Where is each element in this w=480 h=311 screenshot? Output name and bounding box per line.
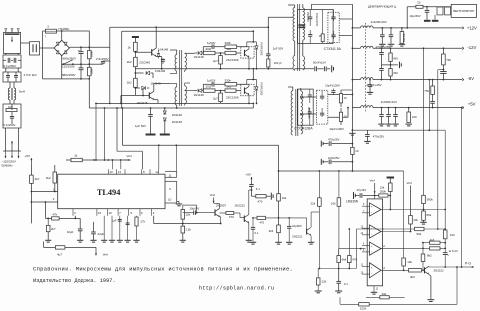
wire fuse to +rail [57, 30, 90, 32]
resistor 102k bottom [359, 303, 370, 306]
connector fan pin a [437, 7, 443, 15]
Q7 emitter ground [429, 275, 431, 276]
resistor 6k8 [338, 249, 340, 256]
capacitor bottom in box [308, 34, 312, 36]
svg-text:0.1: 0.1 [344, 282, 348, 286]
capacitor X2 0.1x250V box [30, 42, 40, 55]
resistor R 4k7 upper-left [30, 175, 34, 183]
resistor 2k7 left [47, 218, 49, 225]
wire riser x403 to PG comparator [403, 171, 405, 252]
comparator U2b [370, 225, 382, 238]
capacitor under pin5 [126, 222, 130, 224]
wire -5V feed [341, 89, 352, 91]
vertical x320 from y171 [318, 171, 320, 198]
resistor R 2k2 at pin1 [54, 165, 56, 172]
svg-text:+5V: +5V [468, 102, 476, 107]
transistor Q7 2N2222 PG [424, 267, 426, 273]
resistor 470 ladder [348, 229, 350, 256]
svg-text:15: 15 [98, 211, 102, 215]
resistor 10 upper [339, 94, 342, 103]
capacitor 10u60V protection [288, 218, 290, 227]
svg-text:56k: 56k [417, 232, 422, 236]
wire 12k top [182, 205, 184, 209]
arrow +5V sense [251, 177, 253, 183]
svg-text:2k2: 2k2 [127, 60, 132, 64]
Q6 emitter ground [248, 223, 250, 240]
transformer T1 primary winding [293, 8, 295, 41]
svg-text:100: 100 [412, 115, 417, 119]
svg-text:0.1x250V: 0.1x250V [4, 64, 17, 68]
svg-text:100 pf: 100 pf [274, 61, 282, 65]
svg-text:4μ7: 4μ7 [57, 252, 62, 256]
svg-text:10nFx100V: 10nFx100V [315, 13, 319, 27]
capacitor C +12 a [381, 28, 383, 35]
svg-text:1N4148: 1N4148 [194, 93, 205, 97]
svg-text:TL494: TL494 [97, 188, 121, 197]
wire pin4 run [153, 216, 155, 224]
svg-text:Vref: Vref [370, 178, 375, 182]
resistor 10k pg [403, 252, 405, 258]
svg-text:330k: 330k [225, 78, 232, 82]
svg-text:100x25V: 100x25V [328, 156, 339, 160]
wire row1 collector bus [252, 31, 254, 42]
wire inlet to X-cap [21, 42, 30, 44]
svg-text:3k3: 3k3 [269, 229, 274, 233]
wire secondary common bus [351, 4, 353, 130]
filter box F2 0.1x250V [3, 55, 21, 68]
capacitor -5 rail [369, 80, 371, 85]
svg-text:Vref: Vref [103, 253, 108, 257]
svg-text:PXPR1005: PXPR1005 [259, 43, 263, 56]
svg-text:PXPR1005: PXPR1005 [259, 83, 263, 96]
resistor 330k row2 [225, 83, 237, 86]
svg-text:1N4148: 1N4148 [194, 55, 205, 59]
resistor R3 1k [134, 38, 136, 43]
connector fan pin b [445, 7, 451, 15]
transistor 2SC1306 row2 [241, 84, 254, 95]
wire bridge right to cap bank [69, 46, 109, 48]
svg-text:4.7nF 2kV: 4.7nF 2kV [24, 73, 37, 77]
wire riser row1 to row2 bus [252, 69, 254, 80]
svg-text:100k: 100k [90, 68, 94, 74]
svg-text:2N2222: 2N2222 [292, 234, 303, 238]
wire pin2 riser [44, 202, 46, 218]
transformer T2 right windings [185, 53, 187, 70]
capacitor below 750 second [432, 94, 434, 101]
capacitor 470x25V on ground bus [366, 130, 368, 134]
svg-text:2k2: 2k2 [46, 176, 51, 180]
wire bridge left to X-cap [43, 47, 55, 49]
svg-text:P·G: P·G [465, 262, 471, 266]
svg-text:22μF: 22μF [98, 232, 105, 236]
svg-text:1μ62V: 1μ62V [207, 78, 215, 82]
resistor 750 from -5 [431, 86, 435, 94]
Q8 emitter ground [310, 236, 312, 242]
resistor 56k [415, 227, 425, 230]
Q8 collector up [310, 212, 312, 227]
svg-text:10μF: 10μF [67, 230, 74, 234]
svg-text:27k: 27k [141, 219, 146, 223]
svg-text:16: 16 [109, 211, 113, 215]
capacitor 0.1 [338, 269, 340, 282]
svg-text:5mH: 5mH [19, 90, 25, 94]
resistor 2u7 row2 [220, 91, 222, 94]
resistor 15 in box [321, 34, 324, 42]
ground fan connector [434, 15, 436, 20]
svg-text:1μF 50V: 1μF 50V [273, 47, 284, 51]
wires from feedback to pins 13 14 [112, 160, 114, 169]
capacitor in box upper [308, 94, 312, 96]
svg-text:50/60Hz: 50/60Hz [2, 164, 14, 168]
wire riser x121.7 [121, 31, 123, 108]
resistor 4k6 upper [430, 241, 441, 244]
resistor 2u7 row1 [220, 53, 222, 56]
wire pin10 to ground [177, 201, 179, 203]
wire to pin1 junction [30, 183, 32, 223]
diode VD8 1N4148 vertical pair upper [164, 108, 166, 111]
svg-text:1k: 1k [128, 45, 132, 49]
wire emitter row2 [248, 95, 250, 104]
connector X1 AC inlet box [4, 33, 21, 54]
resistor 100 on +5 [407, 112, 411, 122]
svg-text:2x2200x16V: 2x2200x16V [371, 20, 387, 24]
wire U2c output [381, 247, 423, 249]
svg-text:ВЕНТИЛЯТОР: ВЕНТИЛЯТОР [453, 9, 474, 13]
svg-text:20Ω: 20Ω [206, 84, 212, 88]
fan box ventilyator [451, 4, 476, 17]
wire U2b output [381, 231, 411, 233]
svg-text:470x25V: 470x25V [328, 137, 339, 141]
comparator U2d [370, 263, 382, 278]
U1 left pins 1 2 [31, 191, 57, 193]
svg-text:10: 10 [344, 114, 347, 118]
transformer T1 lower winding [293, 56, 295, 71]
svg-text:Справочник. Микросхемы для имп: Справочник. Микросхемы для импульсных ис… [33, 266, 293, 273]
resistor vertical with bar [387, 177, 395, 179]
svg-text:4k7: 4k7 [35, 177, 40, 181]
output arrows 115/230V [5, 151, 7, 158]
svg-text:14: 14 [118, 170, 122, 174]
wire 56k row [356, 228, 445, 230]
wire emitter Q1 down [156, 56, 162, 58]
ground heavy under C7 [146, 134, 156, 136]
bus from U1 to right [122, 144, 278, 146]
resistor 20 Ohm row1 [203, 51, 215, 54]
svg-text:10: 10 [344, 96, 347, 100]
wire return bus y108 [89, 107, 253, 109]
svg-text:Vref: Vref [127, 154, 132, 158]
svg-text:CTX9412BA: CTX9412BA [294, 127, 313, 131]
resistor 750 from -12 [442, 54, 446, 65]
ground right of 470 [266, 195, 270, 197]
svg-text:1N4148: 1N4148 [172, 120, 183, 124]
rectifier VD12 dual diode dashed box lower [317, 90, 328, 124]
svg-text:0.1x250V: 0.1x250V [3, 123, 15, 127]
wire X-cap to fuse riser [40, 47, 43, 49]
resistor R5 2k2 lower [134, 78, 138, 87]
rail +12V [352, 27, 360, 29]
svg-text:10μ60V: 10μ60V [292, 224, 302, 228]
svg-text:330k: 330k [225, 41, 232, 45]
connector X1 pins [5, 31, 7, 33]
svg-text:8k2: 8k2 [427, 254, 432, 258]
resistor 2k2 row2 [225, 89, 236, 92]
op-amp U1 TL494 box [58, 174, 165, 209]
svg-text:10k: 10k [413, 218, 418, 222]
capacitor 22uF [93, 222, 95, 228]
bottom terminal bar [3, 150, 21, 152]
resistor 1k lower [430, 247, 441, 250]
svg-text:470: 470 [259, 221, 264, 225]
rectifier VD11 dual diode dashed box [328, 12, 339, 42]
wire collector row2 [248, 84, 250, 86]
capacitor heavy coupling [299, 24, 306, 26]
wires pins 12 11 up [158, 145, 160, 169]
symbol chassis arrow [11, 141, 13, 149]
wire snubber top to transformer [268, 16, 293, 18]
resistor R 4u7 horizontal bottom [55, 246, 65, 249]
svg-text:ДЕМПФИРУЮЩАЯ Ц.: ДЕМПФИРУЮЩАЯ Ц. [368, 4, 397, 8]
svg-text:3x3300x10V: 3x3300x10V [381, 100, 397, 104]
resistor 10 lower [339, 112, 342, 121]
resistor 27k under pin6 [135, 217, 138, 226]
wire collector row1 [248, 47, 250, 49]
vertical +5 to PG [461, 108, 463, 267]
svg-text:3k3: 3k3 [410, 275, 415, 279]
Q6 collector to +5V node [248, 190, 250, 215]
svg-text:+5V: +5V [25, 154, 32, 158]
svg-text:2.6x250V: 2.6x250V [96, 57, 109, 61]
svg-text:LM339N: LM339N [346, 200, 359, 204]
svg-text:П3465Ь: П3465Ь [59, 27, 70, 31]
resistor 63k feedback [380, 296, 389, 299]
svg-text:750: 750 [424, 89, 429, 93]
resistor 10k vref [409, 216, 413, 225]
svg-text:22k: 22k [322, 280, 327, 284]
wire taps T1b to rectifier [301, 96, 317, 98]
wire mid bus [61, 63, 89, 65]
svg-text:1N4148: 1N4148 [158, 48, 169, 52]
resistor 20 fan [416, 5, 423, 8]
filter box F2 1M + 0.1x250V [3, 104, 21, 128]
Q7 collector to PG line [428, 265, 430, 268]
diode VD10 PXPR1005 row1 [256, 42, 258, 46]
svg-text:430: 430 [393, 57, 398, 61]
svg-text:+12V: +12V [467, 26, 477, 31]
wire row bottom to transformer [268, 68, 293, 70]
svg-text:1к 6.2V: 1к 6.2V [449, 249, 458, 253]
capacitor C6 680x350V lower [80, 64, 82, 68]
svg-text:680x350V: 680x350V [63, 56, 77, 60]
wire base Q1 [135, 51, 151, 53]
svg-text:47k: 47k [52, 213, 57, 217]
resistor 12k [181, 210, 185, 220]
wire collector Q2 [153, 84, 155, 92]
node bottom-left [5, 53, 7, 55]
wire rectifier outputs lower [328, 94, 353, 96]
svg-text:380k: 380k [427, 197, 434, 201]
U2 ground pin [373, 286, 375, 292]
svg-text:115/230V: 115/230V [62, 65, 75, 69]
svg-text:22k: 22k [311, 201, 316, 205]
resistor 1.2k [181, 226, 185, 233]
svg-text:1N4148: 1N4148 [155, 69, 166, 73]
capacitor C5 680x350V upper [80, 47, 82, 51]
svg-text:12: 12 [155, 170, 159, 174]
svg-text:Vref: Vref [407, 181, 412, 185]
svg-text:86k: 86k [427, 213, 432, 217]
svg-text:6k8: 6k8 [342, 257, 347, 261]
vertical -12V sense long [438, 69, 444, 71]
transformer T1 core [297, 4, 299, 71]
wire emitter row1 [248, 57, 250, 69]
svg-text:470x25V: 470x25V [373, 134, 384, 138]
svg-text:MBR2545: MBR2545 [307, 107, 311, 119]
U1 top pin cells [107, 169, 109, 174]
transformer T1b winding left [291, 91, 293, 135]
resistor 100 pg chain [443, 230, 447, 239]
capacitors +5 bank [381, 108, 383, 115]
svg-text:63k: 63k [382, 292, 387, 296]
wire riser x96 to vref line [95, 103, 97, 160]
svg-text:2k7: 2k7 [51, 227, 56, 231]
svg-text:470μFx25V: 470μFx25V [375, 45, 390, 49]
svg-text:13: 13 [109, 170, 113, 174]
core dashed of rail coils [364, 23, 366, 112]
wire row2 mid [215, 90, 225, 92]
svg-text:1N4148: 1N4148 [172, 113, 183, 117]
wire collector Q1 to line1 [155, 27, 157, 48]
rail -5V [352, 79, 360, 81]
U1 pin 9 10 cell [165, 180, 177, 182]
resistor 330 1W bleeder +12 [400, 32, 404, 44]
svg-text:1μ50V: 1μ50V [207, 41, 215, 45]
wire y248 to U2c [339, 248, 366, 250]
op-amp U2 LM339N box [367, 199, 382, 286]
wire box top to bus [310, 4, 312, 9]
svg-text:2N2907: 2N2907 [216, 203, 227, 207]
capacitor below 750 [442, 65, 444, 72]
svg-text:20Ω: 20Ω [206, 47, 212, 51]
resistor 20 Ohm row2 [203, 89, 215, 92]
resistor R1 100k upper bleeder [88, 31, 90, 51]
capacitor 10ux50V fan [426, 7, 428, 10]
snubber column 1uF 50V [267, 17, 269, 54]
box around lower rectifier [297, 89, 313, 125]
wire bridge bottom down [61, 56, 63, 79]
svg-text:10μFx100V: 10μFx100V [329, 127, 344, 131]
vertical x338 from y171 [338, 171, 340, 198]
wire vref feedback line [66, 159, 128, 161]
U1 pin 11 cell [165, 170, 177, 172]
U1 bottom pin cells [72, 209, 74, 216]
resistor 330k row1 [225, 45, 237, 48]
svg-text:470: 470 [352, 257, 357, 261]
wires to output arrows [5, 128, 7, 151]
capacitor pair 4.7nF 2kV [3, 72, 21, 82]
svg-text:1μF: 1μF [112, 219, 117, 223]
wire T2 right row2 feed [185, 90, 195, 92]
rail -12V [352, 47, 360, 49]
transformer T1b core [295, 89, 297, 136]
U2 input stubs [362, 205, 370, 207]
svg-text:20: 20 [417, 1, 421, 5]
wire pin3 network [74, 216, 76, 219]
capacitor C +12 b [390, 28, 392, 35]
resistor 380k [423, 48, 425, 195]
svg-text:750: 750 [446, 58, 451, 62]
switch SA1 115/230V [64, 60, 73, 64]
resistor 670 [220, 212, 226, 214]
wire row1 emitter bus [135, 68, 268, 70]
ground symbol on bus [349, 132, 355, 134]
svg-text:10μFx100V: 10μFx100V [325, 84, 340, 88]
wire riser x110 half-bridge mid [109, 61, 111, 103]
grounds under U1 pins [103, 216, 105, 240]
resistor 3k3 protection [277, 225, 281, 233]
transformer T1 secondary lower [303, 56, 305, 70]
arrow Vref down [95, 247, 97, 255]
wire protection base run [254, 217, 307, 219]
resistor 100pf snubber [267, 56, 269, 59]
fuse FU1 [43, 30, 46, 32]
capacitor C7 1uF 50V [150, 108, 152, 115]
vertical feedback right [456, 267, 458, 304]
transistor Q1 2SC945 [151, 49, 153, 55]
svg-text:330 1Ω: 330 1Ω [402, 34, 406, 42]
capacitor 1u row2 [211, 82, 213, 87]
resistor 86k [422, 211, 426, 220]
resistor 2k2 row1 [225, 51, 236, 54]
svg-text:10k: 10k [407, 260, 412, 264]
svg-text:CTX341 5A: CTX341 5A [324, 47, 342, 51]
svg-text:Vref: Vref [210, 193, 215, 197]
wire bus corner down [278, 145, 280, 193]
arrow Vref right [124, 159, 131, 161]
ground heavy under VD9 [160, 134, 170, 136]
transformer T2 driver left windings [175, 55, 177, 72]
wire bottom run [44, 246, 97, 248]
wire R3 to base node Q1 [134, 51, 136, 57]
svg-text:10: 10 [355, 149, 359, 153]
capacitor emitter Q1 [162, 58, 164, 60]
svg-text:2μ7: 2μ7 [213, 59, 218, 63]
diode VD 1N4148 row1 [198, 51, 202, 55]
inductor L1 common-mode choke 5mH [8, 88, 10, 100]
svg-text:-12V: -12V [467, 45, 476, 50]
wire PG line [429, 266, 462, 268]
svg-text:11: 11 [169, 173, 172, 177]
zener VD 5.1 [251, 183, 253, 185]
resistor R4 2k2 [134, 57, 138, 66]
diode VD7 1N4148 horizontal lower [142, 86, 146, 90]
rail +5V [352, 107, 360, 109]
svg-text:10k: 10k [282, 196, 287, 200]
wire riser x110 [109, 27, 111, 61]
wire rail line1 +310V [110, 26, 268, 28]
resistor 8k2 [422, 248, 424, 254]
vertical sense from -5V [428, 80, 430, 131]
wire y268 bus [318, 268, 356, 270]
resistor R2 100k lower bleeder [88, 67, 92, 76]
transistor Q2 2SC945 lower [148, 92, 150, 98]
bus riser [121, 108, 123, 145]
transformer T2 core [179, 50, 181, 106]
svg-text:10k: 10k [331, 201, 336, 205]
diode VD5 1N4148 across Q1 [158, 50, 160, 53]
svg-text:2SC1306: 2SC1306 [226, 58, 239, 62]
svg-text:0.1: 0.1 [255, 231, 259, 235]
